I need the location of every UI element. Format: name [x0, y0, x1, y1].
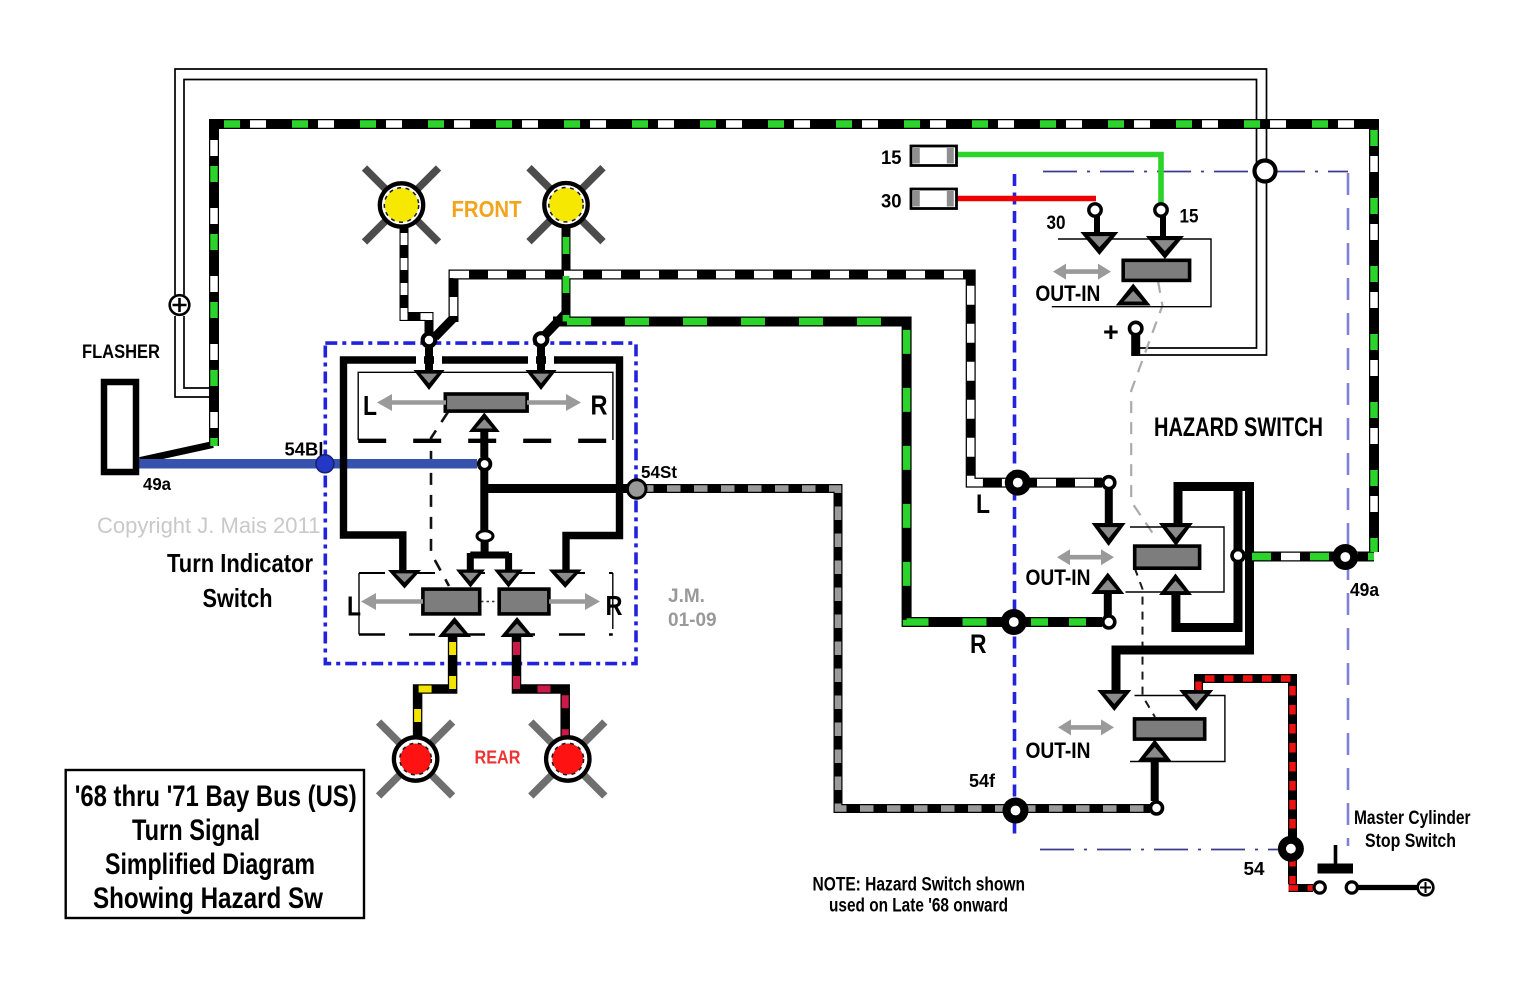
- svg-text:49a: 49a: [1350, 580, 1380, 600]
- svg-text:L: L: [347, 591, 361, 622]
- svg-text:+: +: [1103, 317, 1119, 347]
- svg-text:30: 30: [1047, 213, 1066, 234]
- svg-text:used on Late '68 onward: used on Late '68 onward: [829, 896, 1008, 917]
- svg-text:Master Cylinder: Master Cylinder: [1354, 808, 1471, 829]
- svg-text:Showing Hazard Sw: Showing Hazard Sw: [93, 882, 324, 915]
- svg-text:Switch: Switch: [203, 583, 273, 613]
- svg-text:Turn Indicator: Turn Indicator: [167, 548, 313, 578]
- svg-text:L: L: [976, 489, 990, 519]
- svg-text:HAZARD SWITCH: HAZARD SWITCH: [1154, 412, 1323, 442]
- svg-text:OUT-IN: OUT-IN: [1035, 281, 1100, 306]
- svg-text:49a: 49a: [143, 474, 171, 494]
- svg-text:54: 54: [1244, 859, 1265, 879]
- svg-text:R: R: [591, 390, 608, 421]
- svg-text:R: R: [970, 629, 987, 659]
- svg-text:01-09: 01-09: [668, 610, 717, 631]
- svg-text:15: 15: [1180, 207, 1199, 228]
- svg-text:15: 15: [881, 148, 902, 169]
- svg-text:OUT-IN: OUT-IN: [1026, 738, 1091, 763]
- svg-text:FLASHER: FLASHER: [82, 342, 160, 363]
- svg-text:OUT-IN: OUT-IN: [1026, 565, 1091, 590]
- svg-text:NOTE: Hazard Switch shown: NOTE: Hazard Switch shown: [813, 875, 1026, 896]
- svg-text:54Bl: 54Bl: [285, 440, 324, 460]
- svg-text:Copyright J. Mais 2011: Copyright J. Mais 2011: [97, 513, 320, 538]
- svg-text:54St: 54St: [641, 462, 677, 482]
- svg-text:'68 thru '71 Bay Bus (US): '68 thru '71 Bay Bus (US): [75, 780, 357, 813]
- svg-text:Stop Switch: Stop Switch: [1365, 831, 1456, 852]
- svg-text:REAR: REAR: [475, 748, 521, 768]
- svg-text:Turn Signal: Turn Signal: [132, 814, 260, 847]
- svg-text:30: 30: [881, 192, 902, 213]
- svg-text:J.M.: J.M.: [668, 586, 705, 607]
- svg-text:FRONT: FRONT: [452, 196, 522, 222]
- svg-text:Simplified Diagram: Simplified Diagram: [105, 848, 315, 881]
- svg-text:L: L: [363, 390, 377, 421]
- svg-text:54f: 54f: [969, 771, 996, 791]
- svg-text:R: R: [606, 590, 623, 621]
